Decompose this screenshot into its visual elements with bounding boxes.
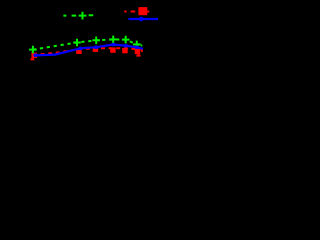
red line tail dash xyxy=(141,49,143,51)
green line tail dash xyxy=(141,44,143,46)
green plus markers xyxy=(29,36,141,54)
legend green plus marker xyxy=(79,12,87,20)
legend red square marker xyxy=(138,7,147,15)
red data line (dashed) xyxy=(33,48,143,55)
red square markers xyxy=(32,47,141,58)
red error bar point 6 xyxy=(136,49,140,56)
blue round markers xyxy=(33,43,139,57)
red error bar point 1 xyxy=(30,52,34,59)
legend red sample line dashes xyxy=(124,11,149,13)
legend green sample line dashes xyxy=(63,14,93,16)
legend blue sample line xyxy=(128,18,158,20)
blue data line (solid) xyxy=(34,45,143,56)
green data line (dashed) xyxy=(33,39,142,49)
legend blue round marker xyxy=(139,17,144,21)
